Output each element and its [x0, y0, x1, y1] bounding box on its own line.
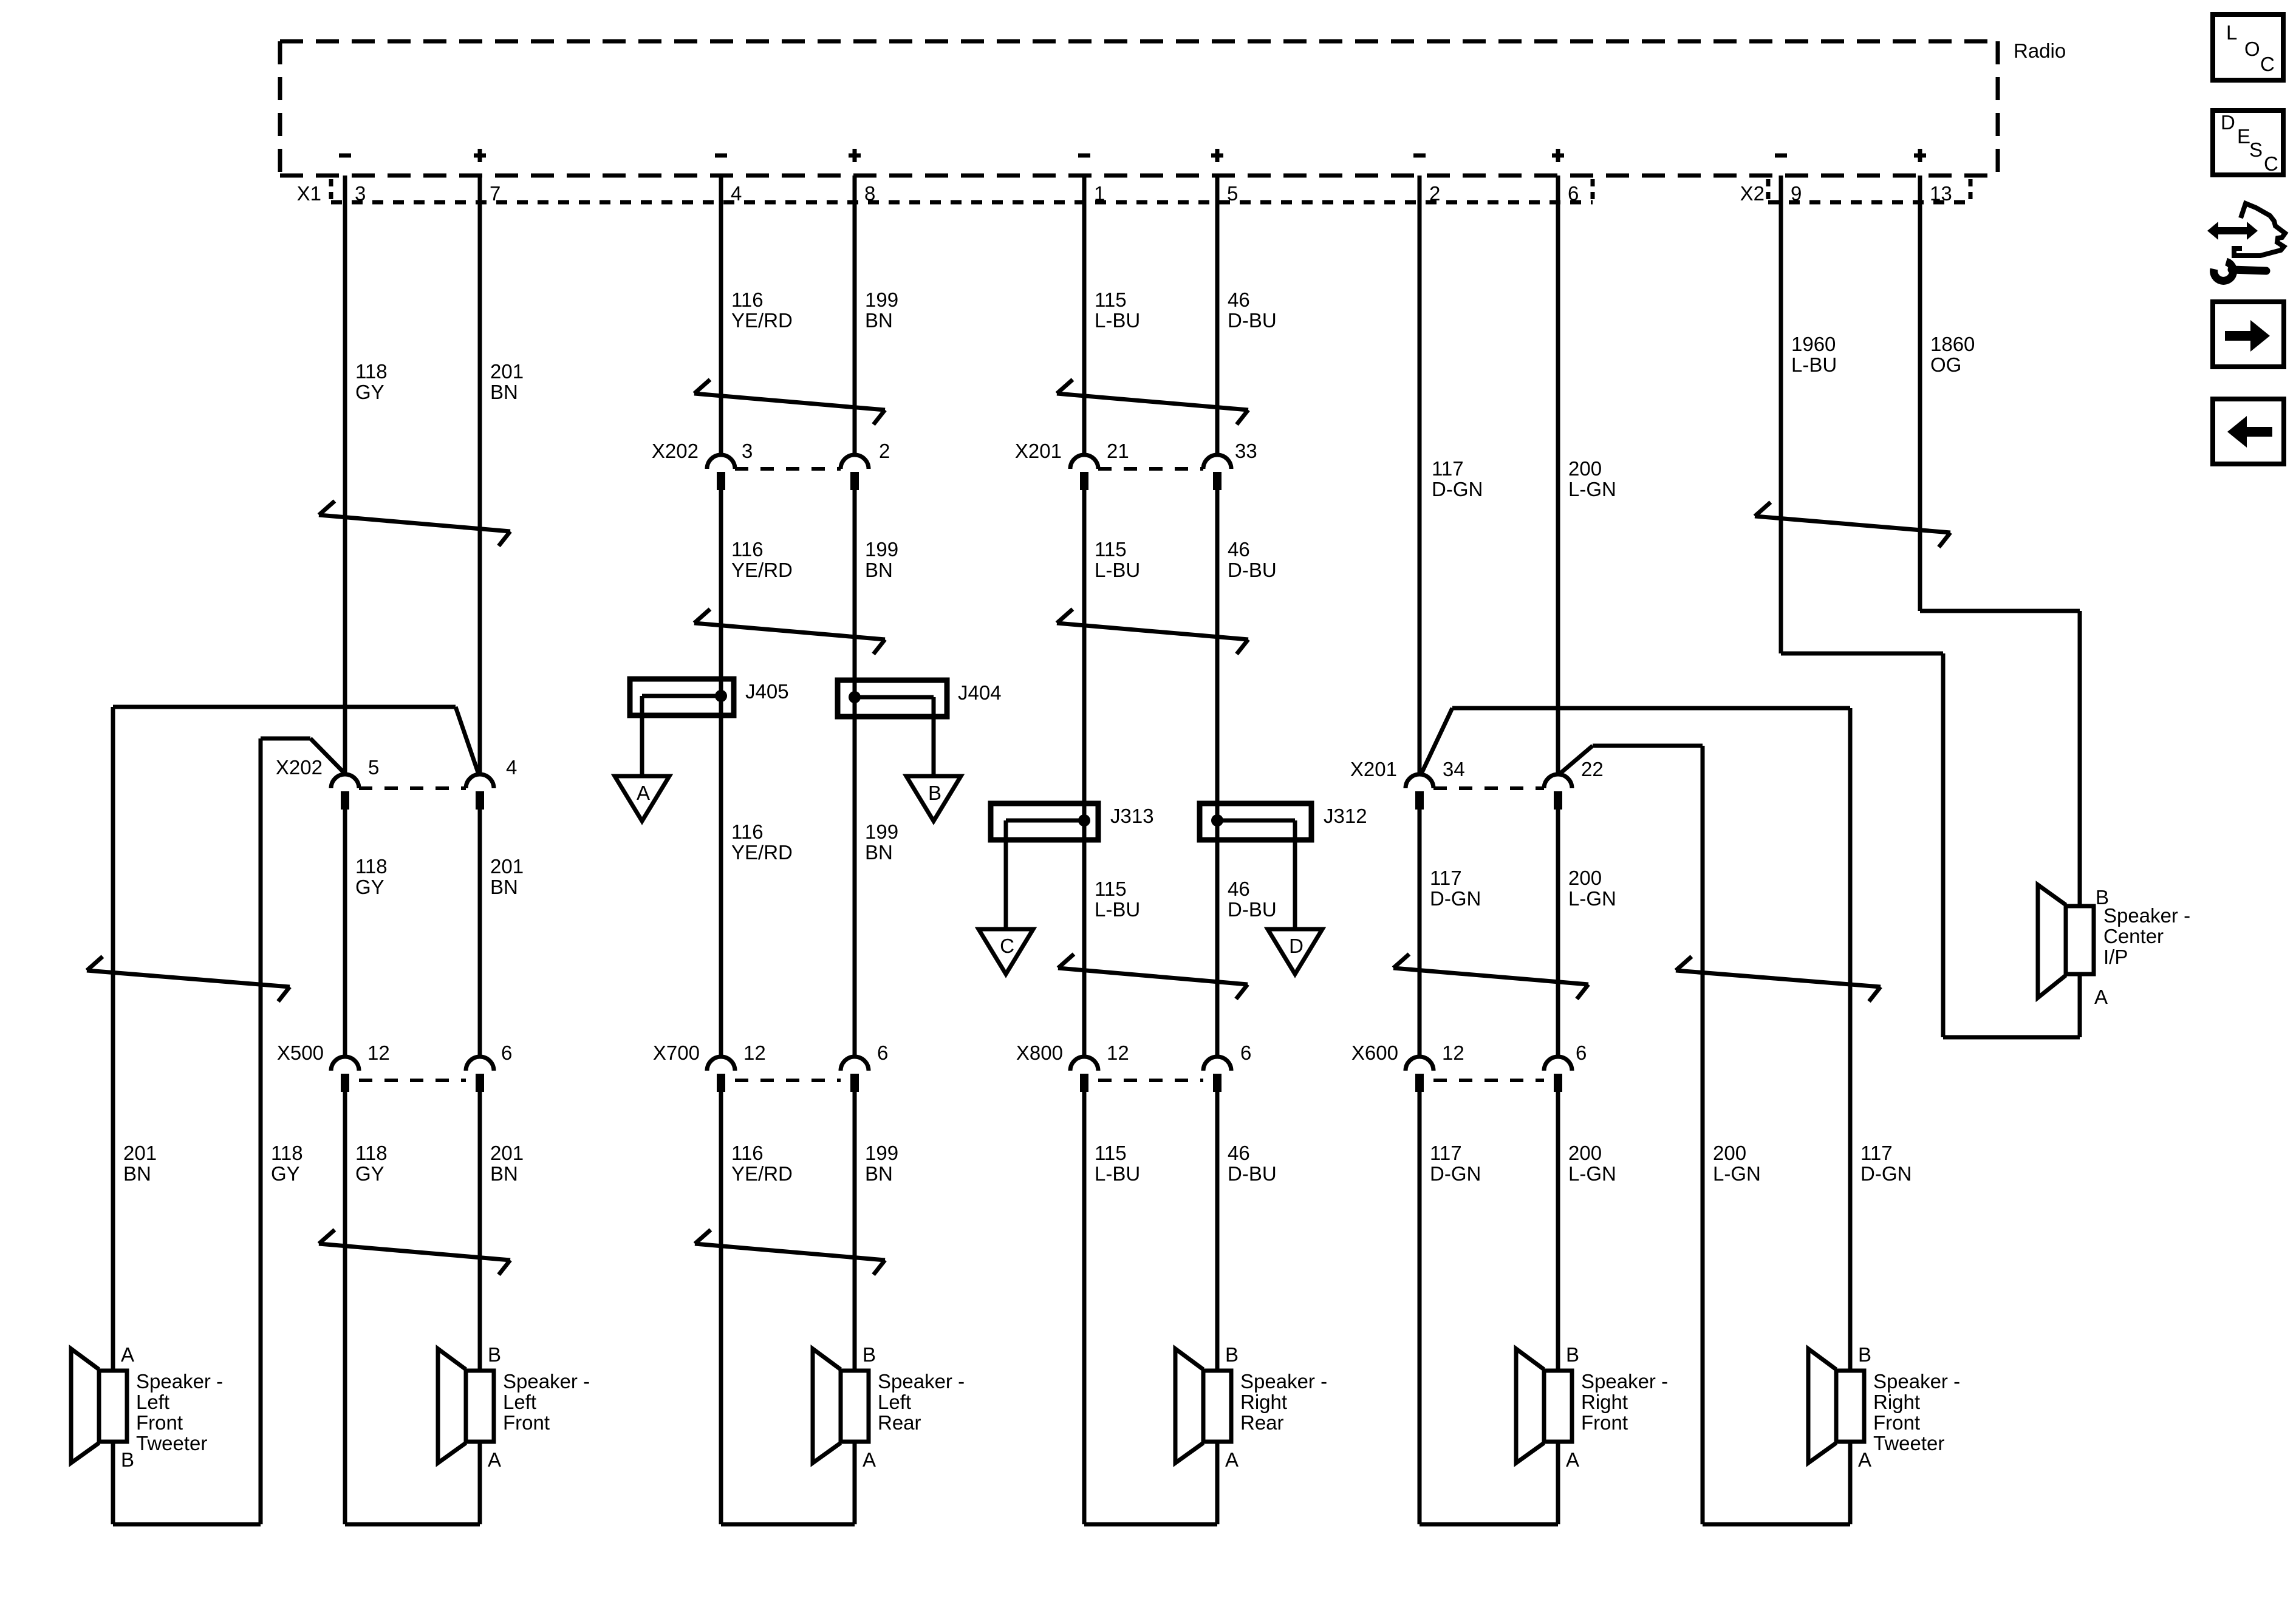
wire 46 D-BU from radio pin 5	[1215, 176, 1220, 1524]
svg-text:117: 117	[1430, 1142, 1462, 1164]
splice J405	[630, 679, 789, 776]
pin 9 polarity -	[1775, 154, 1787, 158]
svg-text:J312: J312	[1324, 805, 1367, 827]
svg-text:201: 201	[490, 1142, 524, 1164]
svg-text:115: 115	[1095, 878, 1127, 900]
svg-text:46: 46	[1228, 538, 1250, 561]
svg-text:12: 12	[1442, 1042, 1464, 1064]
pin 2 polarity -	[1413, 154, 1426, 158]
svg-text:D-GN: D-GN	[1432, 478, 1483, 500]
svg-text:6: 6	[1240, 1042, 1251, 1064]
svg-text:D-GN: D-GN	[1430, 887, 1481, 910]
svg-text:X2: X2	[1740, 182, 1765, 205]
svg-text:L-GN: L-GN	[1713, 1162, 1761, 1185]
crossover wires 116YE-RD/199BN mid	[694, 609, 885, 654]
pin 8 number	[864, 182, 875, 205]
wire label 199 BN mid	[865, 538, 898, 581]
svg-text:BN: BN	[490, 381, 518, 403]
svg-text:33: 33	[1235, 440, 1257, 462]
ground B	[906, 776, 961, 821]
svg-text:B: B	[928, 782, 941, 804]
svg-text:D-BU: D-BU	[1228, 309, 1277, 332]
svg-text:C: C	[2264, 152, 2278, 175]
svg-text:9: 9	[1791, 182, 1802, 205]
wire label 199 BN lower	[865, 820, 898, 864]
wire label 46 D-BU lower	[1228, 878, 1277, 921]
svg-text:201: 201	[490, 855, 524, 878]
svg-text:200: 200	[1568, 1142, 1602, 1164]
svg-text:Radio: Radio	[2014, 39, 2066, 62]
pin 13 polarity +	[1914, 149, 1926, 162]
svg-text:4: 4	[731, 182, 742, 205]
svg-text:A: A	[2094, 986, 2108, 1008]
svg-text:YE/RD: YE/RD	[731, 841, 793, 864]
svg-text:4: 4	[506, 756, 517, 779]
crossover wires 115LBU/46DBU mid	[1057, 609, 1248, 654]
connector X500 pins 12/6	[277, 1042, 512, 1092]
wire label 117 D-GN tweeter	[1860, 1142, 1912, 1185]
wire label 115 L-BU mid	[1095, 538, 1140, 581]
speaker Right Front	[1516, 1343, 1668, 1471]
svg-text:117: 117	[1430, 867, 1462, 889]
wire branch 118 GY from left tweeter (loop)	[261, 738, 344, 1524]
wire label 200 L-GN bottom	[1568, 1142, 1616, 1185]
wire label 46 D-BU mid	[1228, 538, 1277, 581]
wire 118 GY from radio pin 3	[343, 176, 347, 1524]
wire 200 L-GN from radio pin 6	[1556, 176, 1560, 1524]
speaker Right Rear	[1175, 1343, 1327, 1471]
svg-text:12: 12	[1107, 1042, 1129, 1064]
wire branch 117 D-GN to right tweeter	[1421, 708, 1850, 1371]
svg-text:6: 6	[1576, 1042, 1587, 1064]
svg-text:A: A	[637, 782, 650, 804]
svg-text:B: B	[1225, 1343, 1239, 1366]
svg-text:Rear: Rear	[878, 1411, 921, 1434]
wire label 199 BN top	[865, 288, 898, 332]
crossover wires 115LBU/46DBU upper	[1057, 380, 1248, 424]
svg-text:Speaker -: Speaker -	[503, 1370, 590, 1393]
svg-text:200: 200	[1568, 867, 1602, 889]
splice J313	[991, 803, 1154, 929]
svg-text:D-GN: D-GN	[1430, 1162, 1481, 1185]
crossover below X700	[695, 1230, 885, 1275]
connector X700 pins 12/6	[653, 1042, 888, 1092]
wire right tweeter A loop	[1703, 1442, 1850, 1524]
svg-text:B: B	[863, 1343, 876, 1366]
svg-text:J313: J313	[1110, 805, 1154, 827]
pin 5 number	[1227, 182, 1238, 205]
svg-text:J404: J404	[958, 681, 1002, 704]
svg-text:C: C	[2260, 53, 2275, 75]
speaker Left Front Tweeter	[71, 1343, 223, 1471]
connector X800 pins 12/6	[1016, 1042, 1251, 1092]
wire label 117 D-GN bottom	[1430, 1142, 1481, 1185]
svg-text:Speaker -: Speaker -	[1581, 1370, 1668, 1393]
svg-text:200: 200	[1568, 457, 1602, 480]
wire label 201 BN bottom	[123, 1142, 157, 1185]
svg-text:Rear: Rear	[1240, 1411, 1284, 1434]
wire bottom loop left front	[345, 1522, 480, 1527]
pin 6 number	[1568, 182, 1579, 205]
wire 1960 L-BU to center speaker A	[1781, 653, 2080, 1037]
svg-text:Left: Left	[136, 1391, 169, 1413]
pin 4 number	[731, 182, 742, 205]
pin 6 polarity +	[1552, 149, 1564, 162]
pin 1 polarity -	[1078, 154, 1090, 158]
connector X1 (dashed bracket and row)	[297, 179, 1593, 205]
speaker Left Front	[438, 1343, 590, 1471]
pin 4 polarity -	[715, 154, 727, 158]
svg-text:1: 1	[1094, 182, 1105, 205]
wire label 118 GY upper	[355, 360, 388, 403]
svg-text:D-GN: D-GN	[1860, 1162, 1912, 1185]
svg-text:L-GN: L-GN	[1568, 887, 1616, 910]
wire label 117 D-GN mid	[1430, 867, 1481, 910]
svg-text:J405: J405	[745, 680, 789, 703]
svg-text:3: 3	[355, 182, 366, 205]
crossover wires 116YE-RD/199BN upper	[694, 380, 885, 424]
svg-text:6: 6	[1568, 182, 1579, 205]
wire label 118 GY mid	[355, 855, 388, 898]
wire 1960 L-BU from radio pin 9	[1779, 176, 1783, 653]
wire label 46 D-BU bottom	[1228, 1142, 1277, 1185]
svg-text:46: 46	[1228, 1142, 1250, 1164]
ground A	[615, 776, 669, 821]
crossover right tweeter wires	[1676, 956, 1881, 1001]
crossover above X800	[1058, 954, 1248, 999]
svg-text:46: 46	[1228, 878, 1250, 900]
svg-text:115: 115	[1095, 538, 1127, 561]
wire label 117 D-GN top	[1432, 457, 1483, 500]
connector X201 pins 21/33 (in-line)	[1015, 440, 1257, 490]
next-page arrow box	[2213, 302, 2284, 367]
svg-text:Left: Left	[503, 1391, 536, 1413]
connector X600 pins 12/6	[1351, 1042, 1587, 1092]
prev-page arrow box	[2213, 399, 2284, 464]
pin 2 number	[1429, 182, 1440, 205]
svg-text:115: 115	[1095, 288, 1127, 311]
svg-text:A: A	[1225, 1448, 1239, 1471]
wire label 199 BN bottom	[865, 1142, 898, 1185]
svg-text:L-GN: L-GN	[1568, 1162, 1616, 1185]
svg-text:B: B	[1858, 1343, 1871, 1366]
svg-text:1860: 1860	[1930, 333, 1975, 355]
svg-text:A: A	[863, 1448, 876, 1471]
wire 115 L-BU from radio pin 1	[1082, 176, 1087, 1524]
svg-text:201: 201	[490, 360, 524, 383]
wire bottom loop right front	[1420, 1522, 1558, 1527]
svg-text:118: 118	[355, 855, 388, 878]
svg-text:118: 118	[355, 1142, 388, 1164]
pin 7 polarity +	[474, 149, 486, 162]
svg-text:GY: GY	[355, 381, 384, 403]
crossover tweeter wires 201BN/118GY	[87, 956, 290, 1001]
svg-text:D-BU: D-BU	[1228, 898, 1277, 921]
svg-text:L: L	[2226, 21, 2237, 44]
wire label 200 L-GN top	[1568, 457, 1616, 500]
svg-text:116: 116	[731, 538, 764, 561]
Radio box (dashed outline)	[280, 41, 1998, 176]
pin 3 polarity -	[339, 154, 351, 158]
connector X201 pins 34/22 (in-line)	[1350, 758, 1604, 810]
crossover below X500	[319, 1230, 510, 1275]
wire bottom loop left tweeter	[113, 1522, 261, 1527]
svg-text:D-BU: D-BU	[1228, 1162, 1277, 1185]
svg-text:8: 8	[864, 182, 875, 205]
wire branch 201 BN to left tweeter (horizontal)	[113, 707, 478, 1371]
svg-text:L-BU: L-BU	[1095, 898, 1140, 921]
svg-text:46: 46	[1228, 288, 1250, 311]
svg-text:Speaker -: Speaker -	[2103, 904, 2190, 927]
crossover above X600	[1393, 954, 1588, 999]
wire bottom loop right rear	[1084, 1522, 1217, 1527]
wire label 115 L-BU top	[1095, 288, 1140, 332]
wire 1860 OG to center speaker B	[1920, 611, 2080, 906]
car door icon	[2207, 203, 2285, 256]
svg-text:199: 199	[865, 820, 898, 843]
svg-text:6: 6	[501, 1042, 512, 1064]
svg-text:X201: X201	[1350, 758, 1397, 780]
svg-text:6: 6	[877, 1042, 888, 1064]
svg-text:Speaker -: Speaker -	[878, 1370, 965, 1393]
svg-text:D-BU: D-BU	[1228, 559, 1277, 581]
pin 13 number	[1930, 182, 1952, 205]
wire 199 BN from radio pin 8	[853, 176, 857, 1524]
svg-text:YE/RD: YE/RD	[731, 309, 793, 332]
svg-text:Right: Right	[1240, 1391, 1287, 1413]
svg-text:199: 199	[865, 1142, 898, 1164]
svg-text:BN: BN	[865, 1162, 893, 1185]
svg-text:21: 21	[1107, 440, 1129, 462]
svg-text:X500: X500	[277, 1042, 324, 1064]
wire label 116 YE/RD mid	[731, 538, 793, 581]
svg-text:22: 22	[1581, 758, 1604, 780]
svg-text:X800: X800	[1016, 1042, 1063, 1064]
wire 116 YE/RD from radio pin 4	[719, 176, 723, 1524]
wire bottom loop left rear	[721, 1522, 855, 1527]
svg-text:C: C	[1000, 935, 1014, 957]
wire label 1860 OG	[1930, 333, 1975, 376]
svg-text:Speaker -: Speaker -	[1873, 1370, 1960, 1393]
wire label 1960 L-BU	[1791, 333, 1837, 376]
svg-text:5: 5	[1227, 182, 1238, 205]
wire 117 D-GN from radio pin 2	[1418, 176, 1422, 1524]
svg-text:L-BU: L-BU	[1791, 353, 1837, 376]
svg-text:200: 200	[1713, 1142, 1746, 1164]
pin 3 number	[355, 182, 366, 205]
svg-text:X1: X1	[297, 182, 321, 205]
svg-text:S: S	[2249, 138, 2263, 161]
svg-text:A: A	[1858, 1448, 1871, 1471]
svg-text:X700: X700	[653, 1042, 700, 1064]
wire label 201 BN upper	[490, 360, 524, 403]
svg-text:YE/RD: YE/RD	[731, 559, 793, 581]
svg-text:199: 199	[865, 538, 898, 561]
wire 1860 OG from radio pin 13	[1918, 176, 1922, 611]
speaker Right Front Tweeter	[1808, 1343, 1960, 1471]
svg-text:A: A	[121, 1343, 134, 1366]
wire label 46 D-BU top	[1228, 288, 1277, 332]
svg-text:Right: Right	[1873, 1391, 1920, 1413]
svg-text:L-BU: L-BU	[1095, 559, 1140, 581]
svg-text:D: D	[1289, 935, 1303, 957]
svg-text:BN: BN	[865, 841, 893, 864]
DESC legend box	[2213, 111, 2283, 175]
svg-text:116: 116	[731, 1142, 764, 1164]
splice J312	[1200, 803, 1367, 929]
svg-text:Center: Center	[2103, 925, 2164, 947]
svg-text:115: 115	[1095, 1142, 1127, 1164]
svg-text:Right: Right	[1581, 1391, 1628, 1413]
svg-text:X202: X202	[652, 440, 699, 462]
svg-text:BN: BN	[865, 309, 893, 332]
svg-text:2: 2	[1429, 182, 1440, 205]
connector X2 (dashed bracket and row)	[1740, 179, 1970, 205]
svg-text:2: 2	[879, 440, 890, 462]
LOC legend box	[2213, 15, 2283, 80]
wire label 115 L-BU bottom	[1095, 1142, 1140, 1185]
svg-text:5: 5	[368, 756, 379, 779]
wire label 118 GY bottom	[355, 1142, 388, 1185]
svg-text:Front: Front	[503, 1411, 550, 1434]
ground C	[979, 929, 1033, 974]
svg-text:E: E	[2237, 125, 2250, 148]
connector X202 pins 5/4 (in-line)	[276, 756, 517, 810]
svg-text:Tweeter: Tweeter	[136, 1432, 207, 1454]
Radio label	[2014, 39, 2066, 62]
svg-text:GY: GY	[355, 1162, 384, 1185]
svg-text:BN: BN	[123, 1162, 151, 1185]
ground D	[1268, 929, 1322, 974]
wire branch 200 L-GN to right tweeter	[1560, 746, 1703, 1524]
svg-text:L-GN: L-GN	[1568, 478, 1616, 500]
svg-text:Speaker -: Speaker -	[1240, 1370, 1327, 1393]
speaker Left Rear	[813, 1343, 965, 1471]
wrench icon	[2214, 262, 2266, 281]
crossover wires 118GY/201BN	[319, 501, 510, 546]
svg-text:GY: GY	[271, 1162, 300, 1185]
svg-text:117: 117	[1432, 457, 1464, 480]
wire label 116 YE/RD lower	[731, 820, 793, 864]
svg-text:L-BU: L-BU	[1095, 1162, 1140, 1185]
svg-text:1960: 1960	[1791, 333, 1836, 355]
svg-text:B: B	[488, 1343, 501, 1366]
svg-text:7: 7	[490, 182, 501, 205]
wire 201 BN from radio pin 7	[478, 176, 482, 1524]
svg-text:34: 34	[1443, 758, 1465, 780]
svg-text:B: B	[121, 1448, 134, 1471]
svg-text:X600: X600	[1351, 1042, 1398, 1064]
svg-text:YE/RD: YE/RD	[731, 1162, 793, 1185]
svg-text:L-BU: L-BU	[1095, 309, 1140, 332]
svg-text:Front: Front	[136, 1411, 183, 1434]
svg-text:X201: X201	[1015, 440, 1062, 462]
svg-text:BN: BN	[865, 559, 893, 581]
svg-text:GY: GY	[355, 876, 384, 898]
svg-text:201: 201	[123, 1142, 157, 1164]
svg-text:A: A	[488, 1448, 501, 1471]
pin 1 number	[1094, 182, 1105, 205]
pin 7 number	[490, 182, 501, 205]
wire label 200 L-GN tweeter	[1713, 1142, 1761, 1185]
wire bottom loop right tweeter	[1703, 1522, 1850, 1527]
svg-text:12: 12	[743, 1042, 766, 1064]
wire label 116 YE/RD bottom	[731, 1142, 793, 1185]
svg-text:116: 116	[731, 820, 764, 843]
svg-text:BN: BN	[490, 1162, 518, 1185]
svg-text:I/P: I/P	[2103, 946, 2128, 968]
svg-text:BN: BN	[490, 876, 518, 898]
svg-text:X202: X202	[276, 756, 323, 779]
svg-text:A: A	[1566, 1448, 1579, 1471]
wire label 115 L-BU lower	[1095, 878, 1140, 921]
svg-text:117: 117	[1860, 1142, 1893, 1164]
speaker Center I/P	[2038, 885, 2190, 1008]
pin 9 number	[1791, 182, 1802, 205]
svg-text:Front: Front	[1873, 1411, 1920, 1434]
svg-text:Tweeter: Tweeter	[1873, 1432, 1944, 1454]
connector X202 pins 3/2 (in-line)	[652, 440, 890, 490]
splice J404	[838, 680, 1002, 776]
wire label 201 BN mid	[490, 855, 524, 898]
pin 8 polarity +	[849, 149, 861, 162]
crossover wires 1960LBU/1860OG	[1755, 502, 1950, 547]
svg-text:D: D	[2221, 111, 2235, 134]
wire label 201 BN bottom right	[490, 1142, 524, 1185]
wire label 200 L-GN mid	[1568, 867, 1616, 910]
wire left tweeter B to loop	[113, 1442, 261, 1524]
svg-text:116: 116	[731, 288, 764, 311]
svg-text:O: O	[2244, 38, 2260, 60]
wire label 116 YE/RD top	[731, 288, 793, 332]
svg-text:Speaker -: Speaker -	[136, 1370, 223, 1393]
svg-text:118: 118	[355, 360, 388, 383]
svg-text:3: 3	[742, 440, 753, 462]
svg-text:12: 12	[367, 1042, 390, 1064]
svg-text:13: 13	[1930, 182, 1952, 205]
svg-text:118: 118	[271, 1142, 303, 1164]
pin 5 polarity +	[1211, 149, 1223, 162]
svg-text:Left: Left	[878, 1391, 911, 1413]
svg-text:199: 199	[865, 288, 898, 311]
svg-text:Front: Front	[1581, 1411, 1628, 1434]
svg-text:OG: OG	[1930, 353, 1961, 376]
wire label 118 GY bottom tweeter	[271, 1142, 303, 1185]
svg-text:B: B	[1566, 1343, 1579, 1366]
